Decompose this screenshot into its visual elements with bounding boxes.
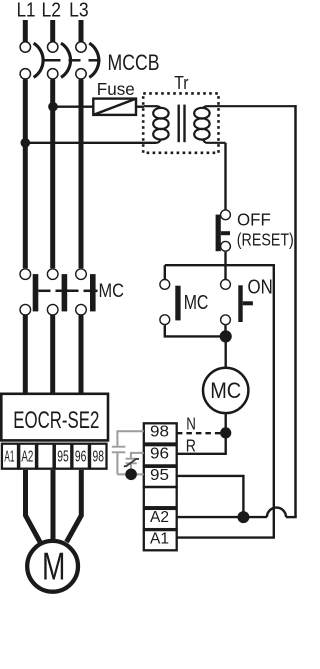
svg-text:Fuse: Fuse bbox=[97, 79, 135, 99]
wire internal to strip 96 bbox=[131, 453, 144, 458]
wire internal below NC contact bbox=[130, 464, 132, 471]
terminal strip box 95 bbox=[144, 467, 177, 487]
contactor MC main pole 2 bar bbox=[62, 274, 68, 311]
wire terminal 95 to A2 node bbox=[177, 476, 244, 517]
relay terminal box A1 bbox=[2, 444, 18, 469]
svg-text:A1: A1 bbox=[150, 530, 169, 547]
relay terminal box blank bbox=[37, 444, 53, 469]
MCCB pole 1 terminals bbox=[20, 42, 30, 52]
wire L1 top stub bbox=[23, 20, 28, 42]
contact internal NC plates bbox=[126, 458, 137, 460]
transformer secondary bottom lead bbox=[203, 140, 225, 143]
relay terminal box 98 bbox=[90, 444, 107, 469]
wire A2 line bbox=[177, 516, 267, 518]
node primary return tap on L1 bbox=[21, 138, 31, 148]
MCCB pole 3 terminals bbox=[76, 42, 86, 52]
wire internal common to strip 95 bbox=[117, 473, 143, 475]
transformer secondary winding bbox=[194, 108, 209, 119]
contactor MC main pole 1 terminals bbox=[20, 269, 31, 280]
wire MC coil to node bbox=[224, 413, 226, 433]
contact MC aux terminal top bbox=[160, 280, 170, 290]
capacitor internal NO contact bbox=[112, 446, 126, 448]
svg-text:L2: L2 bbox=[42, 0, 62, 22]
wire L3 top stub bbox=[79, 20, 84, 42]
svg-text:ON: ON bbox=[248, 276, 273, 299]
MCCB pole 2 contact arc bbox=[61, 43, 71, 77]
wire L2 main bbox=[50, 80, 55, 269]
wire branch to MC aux contact bbox=[164, 265, 166, 279]
wire internal to strip 98 bbox=[117, 431, 143, 446]
transformer core bbox=[177, 105, 179, 143]
svg-text:OFF: OFF bbox=[237, 210, 271, 230]
node below MC coil bbox=[220, 427, 231, 438]
transformer primary winding bbox=[153, 108, 168, 119]
wire secondary bottom down to OFF bbox=[224, 143, 226, 210]
terminal strip box A1 bbox=[144, 530, 177, 550]
wire branch horizontal bbox=[165, 264, 274, 266]
contact MC aux terminal bottom bbox=[160, 315, 170, 325]
relay terminal box 95 bbox=[55, 444, 72, 469]
wire MC aux to node bbox=[165, 325, 222, 336]
wire R to terminal 96 bbox=[177, 433, 226, 454]
motor M bbox=[27, 541, 78, 592]
transformer secondary top lead bbox=[203, 106, 295, 108]
MCCB pole 2 terminals bbox=[48, 42, 58, 52]
wire A2 hop over rail bbox=[267, 508, 286, 518]
wire L1 main bbox=[23, 80, 28, 269]
MCCB pole 3 contact arc bbox=[89, 43, 99, 77]
wire N dashed to terminal 98 bbox=[177, 432, 221, 434]
wire motor lead T3 bbox=[67, 470, 82, 542]
pushbutton ON actuator bar bbox=[238, 285, 242, 322]
wire A1 line and left rail bbox=[177, 264, 274, 538]
terminal strip box blank bbox=[144, 487, 177, 507]
relay terminal box A2 bbox=[19, 444, 36, 469]
contactor MC main pole 2 terminals bbox=[47, 269, 58, 280]
wire L2 top stub bbox=[50, 20, 55, 42]
contactor MC linkage segments bbox=[38, 290, 50, 293]
wire node to MC coil bbox=[224, 336, 226, 368]
wire L3 lower bbox=[79, 316, 84, 395]
svg-text:98: 98 bbox=[93, 448, 105, 465]
pushbutton ON terminal bottom bbox=[221, 315, 231, 325]
wire internal below capacitor bbox=[116, 453, 118, 474]
terminal strip box 98 bbox=[144, 423, 177, 443]
contact internal NC slash bbox=[124, 459, 139, 466]
contactor MC main pole 1 bar bbox=[33, 274, 39, 311]
pushbutton OFF (NC) terminal top bbox=[221, 210, 231, 220]
wire ON to node bbox=[224, 325, 226, 336]
svg-text:L1: L1 bbox=[17, 0, 36, 22]
terminal strip box 96 bbox=[144, 445, 177, 465]
svg-text:A2: A2 bbox=[150, 509, 169, 526]
svg-text:95: 95 bbox=[150, 467, 169, 484]
wire motor lead T1 bbox=[26, 470, 41, 542]
internal relay wiring (grey) bbox=[112, 431, 144, 474]
svg-text:M: M bbox=[42, 546, 65, 589]
wire L1 to transformer primary bottom bbox=[25, 142, 156, 144]
wire A2 to right rail bbox=[286, 516, 297, 518]
pushbutton OFF actuator bar bbox=[216, 215, 221, 252]
svg-text:N: N bbox=[186, 413, 196, 433]
svg-text:A2: A2 bbox=[21, 448, 33, 465]
wire L1 lower bbox=[23, 316, 28, 395]
transformer primary bottom lead joint bbox=[156, 140, 160, 143]
relay EOCR-SE2 body bbox=[1, 394, 108, 441]
node junction below ON/MC bbox=[220, 330, 232, 342]
svg-text:Tr: Tr bbox=[174, 73, 188, 93]
wire right rail from secondary top bbox=[294, 106, 295, 517]
coil MC contactor bbox=[203, 368, 248, 413]
node A2/95 junction bbox=[237, 511, 249, 523]
wire L2 to fuse bbox=[53, 105, 94, 107]
contactor MC main pole 3 bar bbox=[90, 274, 96, 311]
transformer Tr dashed enclosure bbox=[143, 93, 218, 152]
transformer primary top lead bbox=[144, 106, 160, 108]
wire motor lead T2 bbox=[51, 470, 56, 541]
relay terminal box 96 bbox=[72, 444, 89, 469]
contact MC aux bar bbox=[175, 286, 180, 321]
svg-text:L3: L3 bbox=[69, 0, 89, 22]
wire OFF to branch point bbox=[224, 252, 226, 267]
svg-text:96: 96 bbox=[75, 448, 87, 465]
svg-text:98: 98 bbox=[150, 424, 169, 441]
MCCB linkage dashed line bbox=[43, 59, 61, 62]
svg-text:MCCB: MCCB bbox=[108, 50, 160, 75]
svg-text:R: R bbox=[186, 436, 196, 456]
wire branch to ON button bbox=[224, 265, 226, 279]
node internal common bbox=[125, 469, 137, 481]
pushbutton OFF terminal bottom bbox=[221, 241, 231, 251]
wire fuse to transformer bbox=[136, 105, 144, 107]
pushbutton ON (NO) terminal top bbox=[221, 280, 231, 290]
fuse F1 bbox=[93, 99, 136, 115]
wire L2 lower bbox=[50, 316, 55, 395]
svg-text:A1: A1 bbox=[4, 448, 14, 465]
svg-text:(RESET): (RESET) bbox=[237, 229, 294, 249]
svg-text:MC: MC bbox=[184, 292, 209, 314]
svg-text:95: 95 bbox=[57, 448, 69, 465]
svg-text:MC: MC bbox=[210, 378, 241, 403]
MCCB pole 1 contact arc bbox=[34, 43, 44, 77]
node fuse tap on L2 bbox=[48, 102, 58, 112]
svg-text:EOCR-SE2: EOCR-SE2 bbox=[13, 407, 99, 434]
svg-text:96: 96 bbox=[150, 446, 169, 463]
svg-text:MC: MC bbox=[99, 281, 125, 302]
contactor MC main pole 3 terminals bbox=[76, 269, 87, 280]
wire L3 main bbox=[79, 80, 84, 269]
terminal strip box A2 bbox=[144, 509, 177, 529]
